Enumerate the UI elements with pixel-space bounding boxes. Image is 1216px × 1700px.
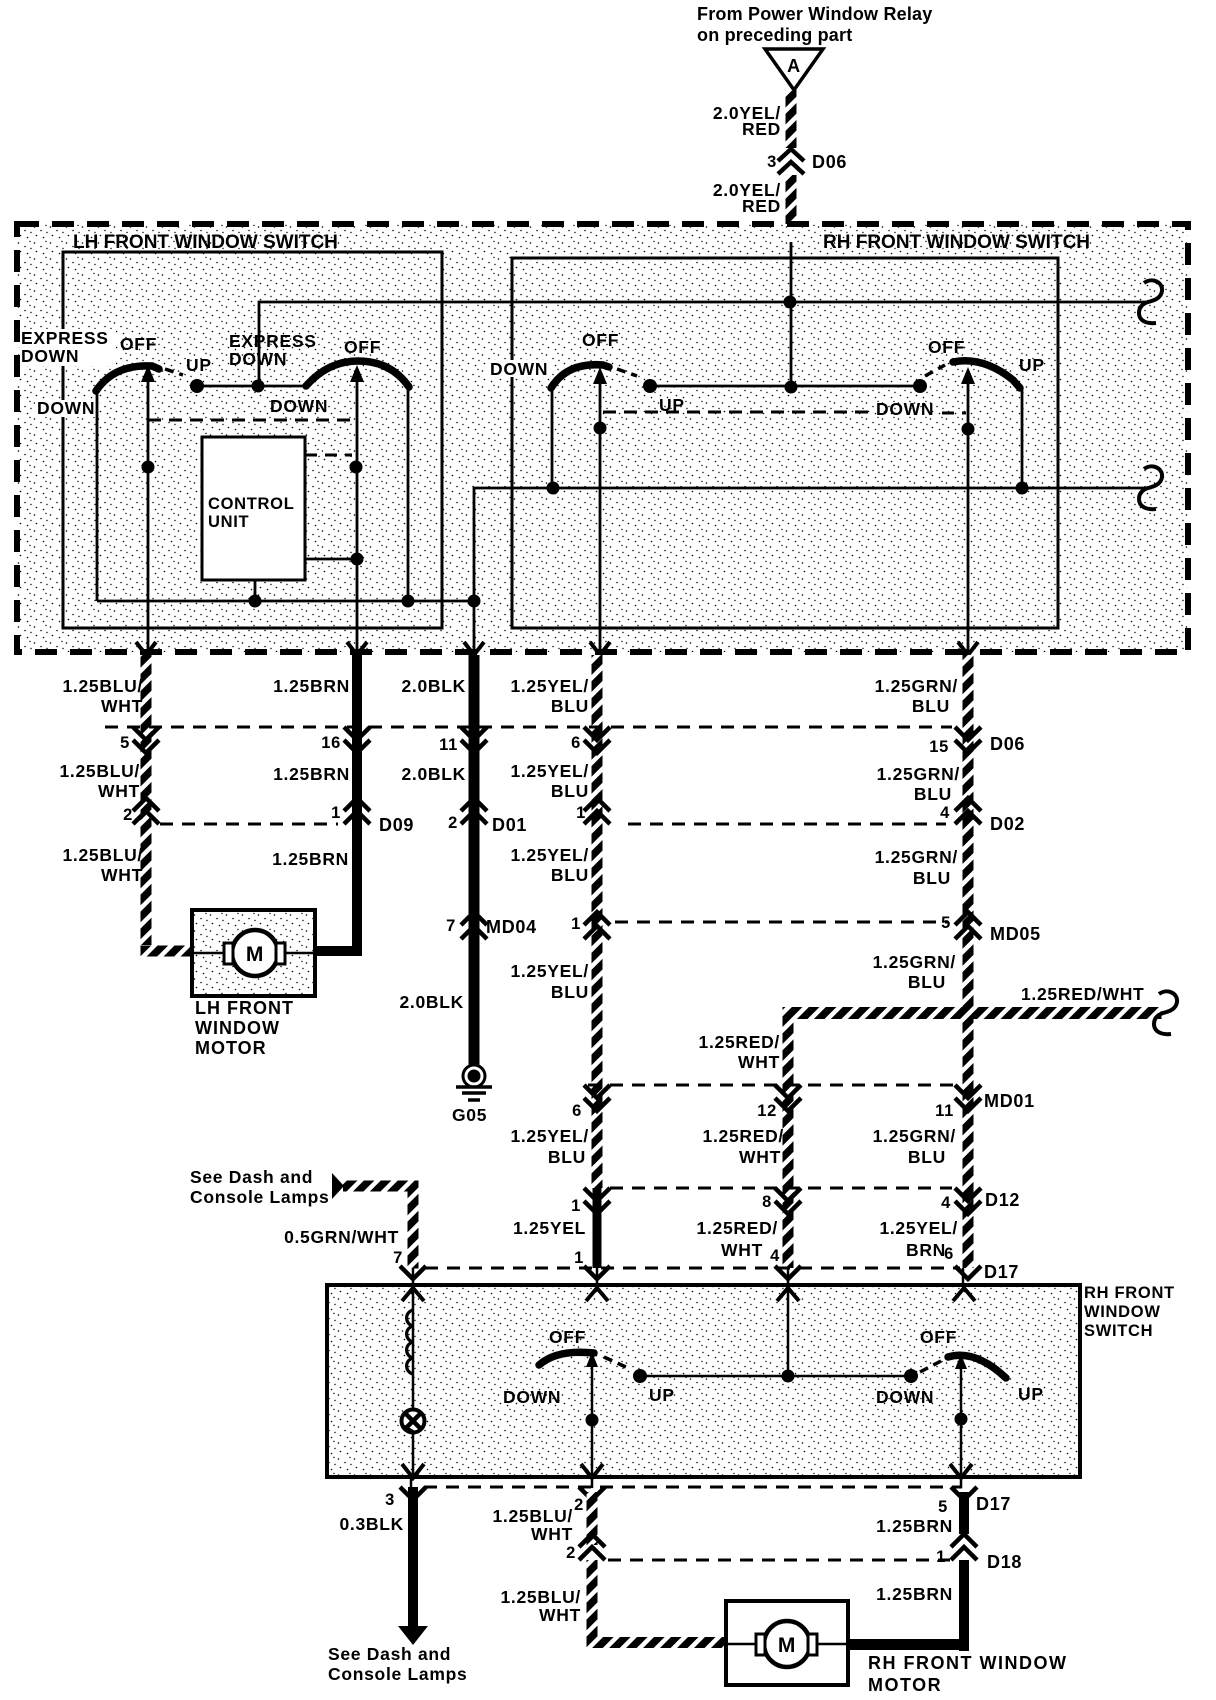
svg-text:UP: UP <box>1019 355 1045 375</box>
svg-text:D06: D06 <box>990 734 1025 754</box>
connector D06 pin 3 (in-line chevrons) <box>767 149 847 174</box>
svg-text:16: 16 <box>321 734 341 752</box>
svg-text:WHT: WHT <box>98 781 140 801</box>
wire 1.25GRN/BLU x968 (hatched) <box>963 655 974 1268</box>
svg-text:UP: UP <box>186 355 212 375</box>
svg-text:WHT: WHT <box>721 1240 763 1260</box>
svg-text:1.25RED/: 1.25RED/ <box>703 1126 784 1146</box>
svg-text:WINDOW: WINDOW <box>1084 1303 1161 1321</box>
wire: contact line y1376 <box>640 1375 911 1378</box>
svg-text:4: 4 <box>941 1194 951 1212</box>
junction dot at (553,488) <box>547 482 560 495</box>
exit chevrons at dashed box bottom <box>136 642 978 655</box>
label See Dash and Console Lamps (lower) <box>328 1644 467 1684</box>
svg-text:OFF: OFF <box>120 334 157 354</box>
svg-text:1.25BRN: 1.25BRN <box>272 849 349 869</box>
svg-text:BLU: BLU <box>908 972 946 992</box>
wire x592 inside lower box with arrowhead <box>586 1352 598 1477</box>
wire labels column 2.0BLK <box>400 676 467 1012</box>
wire: 2.0YEL/RED feed inside box x791 <box>790 242 793 388</box>
svg-text:1.25BLU/: 1.25BLU/ <box>60 761 141 781</box>
wire: arc right end down x408 <box>407 387 410 601</box>
svg-text:WHT: WHT <box>101 696 143 716</box>
label RH FRONT WINDOW MOTOR <box>868 1653 1067 1695</box>
RH FRONT WINDOW MOTOR <box>726 1601 848 1685</box>
svg-text:MD05: MD05 <box>990 924 1041 944</box>
svg-text:Console Lamps: Console Lamps <box>328 1664 467 1684</box>
wire 2.0YEL/RED (hatched, from triangle A to D06) <box>786 90 797 148</box>
ground G05 <box>452 1065 492 1125</box>
wire labels column 1.25BLU/WHT <box>60 676 144 885</box>
svg-text:UNIT: UNIT <box>208 513 249 531</box>
switch arm arc (lower right switch) <box>948 1355 1006 1378</box>
wire 1.25BRN horizontal to LH motor <box>315 946 362 956</box>
wire 1.25BRN x964 (thick, D17 to D18 to RH motor) <box>848 1492 969 1651</box>
svg-text:DOWN: DOWN <box>490 359 548 379</box>
mechanical link dashed (LH switches) <box>148 419 352 422</box>
svg-text:DOWN: DOWN <box>876 1387 934 1407</box>
svg-text:D02: D02 <box>990 814 1025 834</box>
wire 0.3BLK (thick, down arrow to dash/console lamps) <box>398 1487 428 1645</box>
svg-text:D06: D06 <box>812 152 847 172</box>
svg-text:BLU: BLU <box>551 781 589 801</box>
open contact dash (LH left switch) <box>165 369 183 375</box>
svg-text:5: 5 <box>120 734 130 752</box>
svg-text:OFF: OFF <box>344 337 381 357</box>
svg-text:MD04: MD04 <box>486 917 537 937</box>
svg-text:RED: RED <box>742 119 781 139</box>
svg-text:1.25RED/WHT: 1.25RED/WHT <box>1021 984 1144 1004</box>
DOWN contact dot (RH right switch) <box>913 379 927 393</box>
svg-text:OFF: OFF <box>920 1327 957 1347</box>
svg-text:DOWN: DOWN <box>21 346 79 366</box>
svg-text:DOWN: DOWN <box>229 349 287 369</box>
wire labels column 1.25BRN <box>272 676 350 869</box>
wire: x474 from bus y601 to box exit (2.0BLK) <box>473 601 476 655</box>
svg-text:1: 1 <box>331 804 341 822</box>
switch arm arc (RH right switch) <box>953 361 1020 388</box>
svg-text:DOWN: DOWN <box>37 398 95 418</box>
wire stubs from D17 row into lower box <box>413 1268 963 1290</box>
svg-text:LH FRONT WINDOW SWITCH: LH FRONT WINDOW SWITCH <box>73 232 338 253</box>
pivot line x552 (RH left switch DOWN side) <box>551 387 554 488</box>
continuation squiggle (right end of 1.25RED/WHT) <box>1154 991 1177 1034</box>
svg-text:2: 2 <box>574 1496 584 1514</box>
connector row D12 <box>571 1188 1020 1215</box>
junction dot at (1022,488) <box>1016 482 1029 495</box>
UP contact dot (lower left switch) <box>633 1369 647 1383</box>
wire 0.5GRN/WHT (hatched) flag to D17 <box>343 1181 419 1269</box>
junction dot at (357,559) <box>351 553 364 566</box>
wire 1.25BRN x357 (thick) <box>352 655 362 951</box>
wire x788 from top edge to contact line <box>787 1288 790 1376</box>
CONTROL UNIT box <box>202 437 305 580</box>
connector row D17 (upper) <box>393 1245 1019 1282</box>
svg-text:BRN: BRN <box>906 1240 946 1260</box>
wire stubs from lower box bottom to D17 row <box>411 1477 961 1488</box>
open contact dash (lower left switch) <box>604 1357 628 1368</box>
svg-text:CONTROL: CONTROL <box>208 495 294 513</box>
connector row D09 / D01 / D02 <box>123 798 1025 835</box>
continuation squiggle (right end of y302 wire) <box>1139 280 1162 323</box>
svg-text:1.25BLU/: 1.25BLU/ <box>501 1587 582 1607</box>
svg-text:BLU: BLU <box>913 868 951 888</box>
svg-text:D18: D18 <box>987 1552 1022 1572</box>
svg-text:1.25GRN/: 1.25GRN/ <box>873 1126 956 1146</box>
label EXPRESS DOWN (left) <box>20 328 116 366</box>
svg-text:D17: D17 <box>976 1494 1011 1514</box>
wire 2.0YEL/RED (hatched, from D06 into dashed box) <box>786 175 797 225</box>
label 1.25BLU/WHT (lower) <box>501 1587 582 1625</box>
wire x961 inside lower box with arrowhead <box>955 1354 967 1477</box>
junction dot at (788,1376) <box>782 1370 795 1383</box>
wire 1.25YEL/BLU x597 (hatched) <box>592 655 603 1188</box>
wire: contact line y386 RH <box>650 385 920 388</box>
label DOWN (RH left switch) <box>488 359 552 379</box>
svg-text:1.25GRN/: 1.25GRN/ <box>875 676 958 696</box>
svg-text:1: 1 <box>574 1249 584 1267</box>
svg-text:WINDOW: WINDOW <box>195 1018 280 1038</box>
wire 1.25YEL x597 (solid, D12 to D17) <box>593 1188 602 1268</box>
connector row MD04 / MD05 <box>446 912 1041 944</box>
svg-text:6: 6 <box>572 1102 582 1120</box>
svg-text:RED: RED <box>742 196 781 216</box>
wire: bus y601 <box>97 600 474 603</box>
svg-text:1.25BLU/: 1.25BLU/ <box>493 1506 574 1526</box>
svg-text:1.25RED/: 1.25RED/ <box>699 1032 780 1052</box>
label EXPRESS DOWN (center) <box>229 331 317 369</box>
svg-text:D01: D01 <box>492 815 527 835</box>
svg-text:UP: UP <box>1018 1384 1044 1404</box>
note: From Power Window Relay <box>697 4 932 45</box>
svg-text:See Dash and: See Dash and <box>328 1644 451 1664</box>
svg-text:M: M <box>246 943 264 966</box>
junction dot at (258,386) <box>252 380 265 393</box>
svg-text:11: 11 <box>935 1102 954 1120</box>
svg-text:LH FRONT: LH FRONT <box>195 998 294 1018</box>
See Dash and Console Lamps flag (upper) <box>190 1167 344 1207</box>
svg-text:DOWN: DOWN <box>876 399 934 419</box>
coil (illumination resistor/coil) <box>407 1310 413 1374</box>
illumination lamp (circle with cross) <box>402 1410 425 1433</box>
svg-text:SWITCH: SWITCH <box>1084 1322 1153 1340</box>
svg-text:BLU: BLU <box>912 696 950 716</box>
svg-text:OFF: OFF <box>582 330 619 350</box>
exit chevrons at lower box bottom edge <box>402 1464 972 1478</box>
RH switch inner box <box>512 258 1058 628</box>
svg-text:BLU: BLU <box>551 696 589 716</box>
svg-text:From Power Window Relay: From Power Window Relay <box>697 4 932 24</box>
svg-text:0.3BLK: 0.3BLK <box>340 1514 405 1534</box>
svg-text:1.25BLU/: 1.25BLU/ <box>63 676 144 696</box>
wire 1.25BLU/WHT horizontal to LH motor <box>141 946 193 957</box>
svg-text:MOTOR: MOTOR <box>195 1038 267 1058</box>
UP contact dot (LH left switch) <box>190 379 204 393</box>
svg-text:WHT: WHT <box>739 1147 781 1167</box>
svg-text:2.0BLK: 2.0BLK <box>402 676 467 696</box>
svg-text:4: 4 <box>770 1247 780 1265</box>
wire labels column 1.25GRN/BLU <box>873 676 960 1260</box>
wire: bus y488 from 2.0BLK corner to continuation <box>474 488 1146 601</box>
UP contact dot (RH left switch) <box>643 379 657 393</box>
switch arm arc (RH left switch) <box>551 365 609 388</box>
wire 1.25RED/WHT horizontal (hatched) with corner at x788 <box>783 1007 1162 1268</box>
LH FRONT WINDOW MOTOR <box>192 910 315 996</box>
svg-text:OFF: OFF <box>549 1327 586 1347</box>
svg-text:1.25YEL/: 1.25YEL/ <box>510 676 589 696</box>
junction dot at (356,467) <box>350 461 363 474</box>
svg-text:1.25GRN/: 1.25GRN/ <box>877 764 960 784</box>
junction dot at (148,467) <box>142 461 155 474</box>
svg-text:1.25RED/: 1.25RED/ <box>697 1218 778 1238</box>
svg-text:Console Lamps: Console Lamps <box>190 1187 329 1207</box>
entry arrows at lower box top edge <box>402 1288 975 1301</box>
svg-text:1.25BRN: 1.25BRN <box>273 676 350 696</box>
svg-text:D12: D12 <box>985 1190 1020 1210</box>
junction dot at (408,601) <box>402 595 415 608</box>
connector row MD01 <box>572 1085 1035 1120</box>
svg-text:on preceding part: on preceding part <box>697 25 852 45</box>
svg-text:BLU: BLU <box>551 865 589 885</box>
wire labels column 1.25RED/WHT <box>697 1032 784 1260</box>
junction dot at (961,1419) <box>955 1413 968 1426</box>
svg-text:WHT: WHT <box>101 865 143 885</box>
wire: contact line y386 LH <box>197 385 307 388</box>
DOWN contact dot (lower right switch) <box>904 1369 918 1383</box>
svg-text:1.25GRN/: 1.25GRN/ <box>875 847 958 867</box>
svg-text:1.25BRN: 1.25BRN <box>876 1584 953 1604</box>
wire 2.0BLK x474 (thick) <box>469 655 480 1067</box>
svg-text:RH FRONT WINDOW SWITCH: RH FRONT WINDOW SWITCH <box>823 232 1090 253</box>
junction dot at (790,302) <box>784 296 797 309</box>
mechanical link dashed (control unit to express switch) <box>305 454 352 457</box>
svg-text:1.25YEL/: 1.25YEL/ <box>510 961 589 981</box>
svg-text:2: 2 <box>566 1544 576 1562</box>
svg-text:UP: UP <box>649 1385 675 1405</box>
svg-text:EXPRESS: EXPRESS <box>229 331 317 351</box>
switch arm arch (LH express-down switch) <box>306 361 409 387</box>
svg-text:1.25BLU/: 1.25BLU/ <box>63 845 144 865</box>
junction dot at (255,601) <box>249 595 262 608</box>
svg-text:DOWN: DOWN <box>503 1387 561 1407</box>
svg-text:1.25YEL/: 1.25YEL/ <box>510 845 589 865</box>
svg-text:RH FRONT: RH FRONT <box>1084 1284 1175 1302</box>
svg-text:WHT: WHT <box>539 1605 581 1625</box>
LH switch inner box <box>63 252 442 628</box>
dashed enclosure of front window switches (stippled) <box>17 224 1188 652</box>
svg-text:A: A <box>787 56 801 76</box>
svg-text:BLU: BLU <box>551 982 589 1002</box>
svg-text:11: 11 <box>439 736 458 754</box>
wire: x968 output with arrowhead (to 1.25GRN/BLU) <box>961 367 975 652</box>
connector row D18 <box>566 1534 1022 1572</box>
svg-text:7: 7 <box>393 1249 403 1267</box>
label 1.25BLU/WHT (upper, with pin 2) <box>493 1506 574 1544</box>
svg-text:12: 12 <box>757 1102 777 1120</box>
svg-text:0.5GRN/WHT: 0.5GRN/WHT <box>284 1227 399 1247</box>
svg-text:1: 1 <box>936 1548 946 1566</box>
label 2.0YEL/RED (lower) <box>713 180 781 216</box>
label 2.0YEL/RED (upper) <box>713 103 781 139</box>
svg-text:8: 8 <box>762 1193 772 1211</box>
connector triangle A (from power window relay) <box>765 49 823 90</box>
label RH FRONT WINDOW SWITCH (lower) <box>1084 1284 1175 1340</box>
wire: control unit right side to x357 <box>305 558 357 561</box>
svg-text:7: 7 <box>446 917 456 935</box>
svg-text:WHT: WHT <box>531 1524 573 1544</box>
svg-text:1.25YEL: 1.25YEL <box>513 1218 586 1238</box>
svg-text:5: 5 <box>938 1498 948 1516</box>
svg-text:WHT: WHT <box>738 1052 780 1072</box>
wire x413 inside lower box (illumination branch) <box>412 1288 415 1477</box>
wire: x600 output with arrowhead (to 1.25YEL/BLU) <box>593 367 607 652</box>
svg-text:5: 5 <box>941 914 951 932</box>
label LH FRONT WINDOW MOTOR <box>195 998 294 1058</box>
svg-text:2.0BLK: 2.0BLK <box>402 764 467 784</box>
svg-text:MD01: MD01 <box>984 1091 1035 1111</box>
open contact dash (RH left switch) <box>617 369 637 376</box>
wire 1.25BLU/WHT (hatched, D18 to RH motor) <box>587 1560 727 1648</box>
svg-text:D09: D09 <box>379 815 414 835</box>
svg-text:1.25BRN: 1.25BRN <box>876 1516 953 1536</box>
svg-text:6: 6 <box>571 734 581 752</box>
svg-text:See Dash and: See Dash and <box>190 1167 313 1187</box>
continuation squiggle (right end of y488 wire) <box>1139 466 1162 509</box>
svg-text:DOWN: DOWN <box>270 396 328 416</box>
svg-text:BLU: BLU <box>548 1147 586 1167</box>
wire: bus y302 from LH express-down junction to continuation <box>259 302 1146 386</box>
svg-text:BLU: BLU <box>908 1147 946 1167</box>
svg-text:OFF: OFF <box>928 337 965 357</box>
svg-text:BLU: BLU <box>914 784 952 804</box>
RH front window switch box (lower, stippled) <box>327 1285 1080 1477</box>
wire: x357 output with arrowhead (to 1.25BRN) <box>350 365 364 652</box>
mechanical link dashed (RH switches) <box>603 412 966 413</box>
open contact dash (RH right switch) <box>925 365 945 376</box>
svg-text:1: 1 <box>571 1197 581 1215</box>
svg-text:EXPRESS: EXPRESS <box>21 328 109 348</box>
junction dot at (600,428) <box>594 422 607 435</box>
svg-text:15: 15 <box>929 738 949 756</box>
pivot line (LH left switch DOWN side) <box>96 390 99 601</box>
connector row D17 (lower) <box>385 1487 1011 1516</box>
svg-text:1.25YEL/: 1.25YEL/ <box>510 1126 589 1146</box>
junction dot at (474,601) <box>468 595 481 608</box>
svg-text:1.25GRN/: 1.25GRN/ <box>873 952 956 972</box>
wire: control unit bottom to bus y601 <box>254 580 257 601</box>
entry arrow at dashed box boundary <box>781 228 801 241</box>
connector row D06 <box>105 727 1025 756</box>
svg-text:2: 2 <box>123 806 133 824</box>
wire: arc right end down x1022 <box>1021 388 1024 488</box>
svg-text:1.25YEL/: 1.25YEL/ <box>879 1218 958 1238</box>
wire labels column 1.25YEL/BLU <box>510 676 589 1238</box>
junction dot at (968,429) <box>962 423 975 436</box>
svg-text:1.25YEL/: 1.25YEL/ <box>510 761 589 781</box>
label DOWN (LH left switch) <box>35 398 99 418</box>
wire 1.25BLU/WHT x146 (hatched) <box>141 655 152 945</box>
svg-text:2: 2 <box>448 814 458 832</box>
svg-text:3: 3 <box>767 153 777 171</box>
svg-text:3: 3 <box>385 1491 395 1509</box>
svg-text:2.0BLK: 2.0BLK <box>400 992 465 1012</box>
wire: UP output x148 with arrowhead (to 1.25BLU/WHT) <box>141 365 155 652</box>
svg-text:MOTOR: MOTOR <box>868 1675 942 1695</box>
junction dot at (592,1420) <box>586 1414 599 1427</box>
svg-text:1: 1 <box>571 915 581 933</box>
junction dot at (791,387) <box>785 381 798 394</box>
svg-text:RH FRONT WINDOW: RH FRONT WINDOW <box>868 1653 1067 1673</box>
open contact dash (lower right switch) <box>920 1361 941 1372</box>
svg-text:M: M <box>778 1634 796 1657</box>
svg-text:1.25BRN: 1.25BRN <box>273 764 350 784</box>
switch arm arc (LH window switch, driver side) <box>96 366 159 391</box>
svg-text:4: 4 <box>940 804 950 822</box>
svg-text:1: 1 <box>576 804 586 822</box>
svg-text:G05: G05 <box>452 1105 487 1125</box>
svg-text:D17: D17 <box>984 1262 1019 1282</box>
wire 1.25BLU/WHT x592 (hatched, D17 to D18) <box>587 1492 598 1545</box>
switch arm arc (lower left switch) <box>539 1352 594 1365</box>
